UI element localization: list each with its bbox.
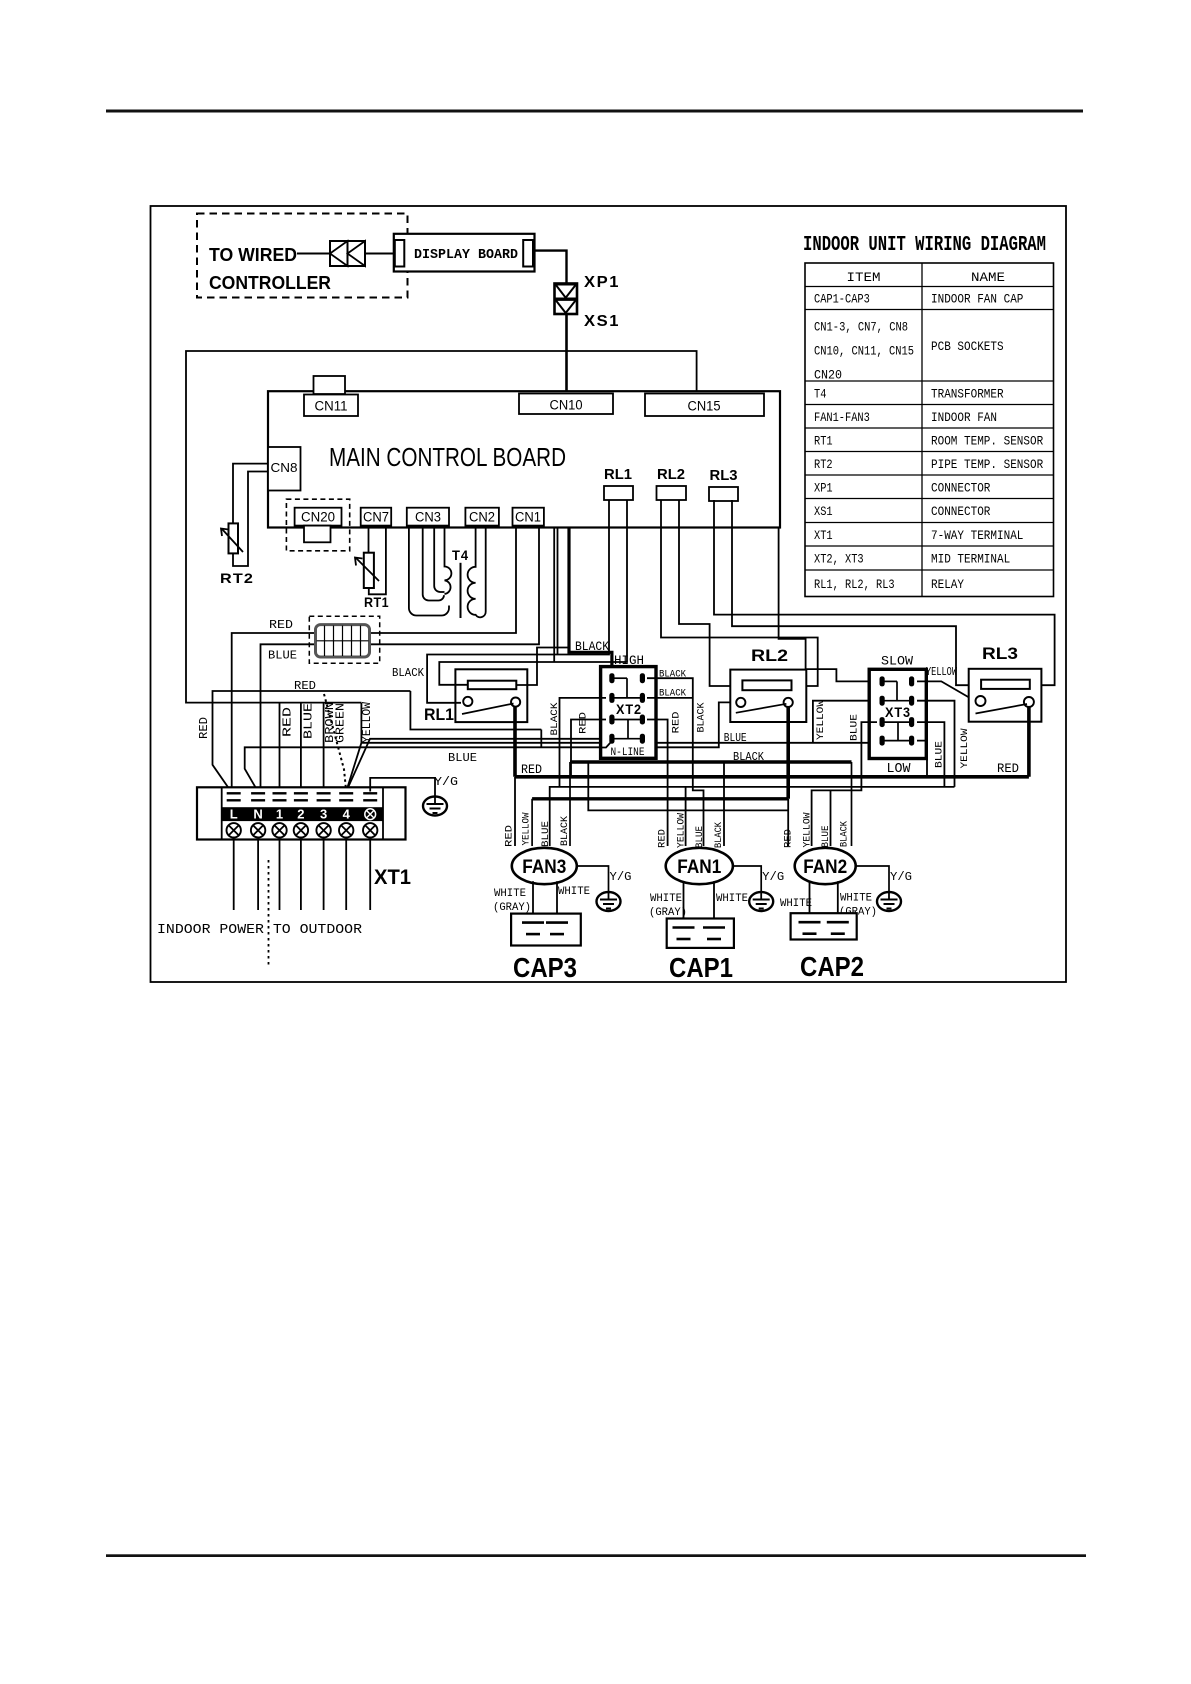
svg-text:YELLOW: YELLOW — [520, 812, 532, 846]
svg-text:N: N — [253, 807, 262, 822]
terminal block XT1 outer box — [197, 787, 406, 839]
svg-text:RED: RED — [997, 762, 1019, 776]
svg-text:BLACK: BLACK — [659, 669, 687, 681]
relay RL1 contacts — [463, 697, 472, 706]
svg-text:CONTROLLER: CONTROLLER — [209, 273, 331, 293]
relay RL1 box — [455, 669, 527, 722]
svg-text:RELAY: RELAY — [931, 578, 964, 592]
svg-text:XS1: XS1 — [814, 505, 833, 519]
dashed box TO WIRED CONTROLLER — [197, 214, 408, 298]
wire XS1 to CN10 — [565, 314, 568, 394]
svg-text:MID TERMINAL: MID TERMINAL — [931, 553, 1010, 567]
socket CN8 — [268, 447, 301, 491]
wire fan2 black drop — [851, 762, 853, 846]
thermistor RT1 wiring from CN7 — [368, 526, 370, 553]
fan FAN2 wires to capacitor — [809, 881, 811, 922]
wires below XT1 to supply — [233, 840, 235, 911]
wire yellow drop from big loop — [360, 703, 362, 743]
XT3 row1 right yellow wire to RL3 — [917, 681, 976, 701]
dashed box around CN20 — [286, 499, 349, 551]
socket CN2 — [465, 508, 499, 526]
svg-text:RL3: RL3 — [982, 644, 1018, 663]
thick bus wire y799 — [532, 797, 788, 800]
XT2 left black wire — [560, 698, 607, 787]
transformer T4 primary coil and CN3 wires — [409, 526, 449, 616]
svg-text:WHITE: WHITE — [780, 898, 812, 910]
svg-text:CN15: CN15 — [688, 399, 721, 414]
fan FAN3 ellipse — [512, 848, 577, 884]
svg-text:CN10: CN10 — [550, 398, 583, 413]
wire display board to XP1 — [533, 251, 567, 284]
svg-text:RED: RED — [577, 712, 589, 734]
relay RL3 coil — [981, 680, 1030, 689]
fan FAN1 wires to capacitor — [683, 881, 685, 927]
capacitor CAP1 box — [667, 919, 734, 948]
capacitor CAP2 box — [791, 913, 857, 939]
svg-text:CN11: CN11 — [315, 399, 348, 414]
svg-text:TRANSFORMER: TRANSFORMER — [931, 387, 1004, 401]
svg-text:CONNECTOR: CONNECTOR — [931, 481, 991, 495]
svg-text:INDOOR UNIT WIRING DIAGRAM: INDOOR UNIT WIRING DIAGRAM — [803, 234, 1046, 257]
wire controller to plug symbol — [297, 253, 331, 255]
relay RL3 wiring from board pins — [714, 500, 1055, 685]
svg-text:BLUE: BLUE — [724, 732, 747, 745]
svg-text:RED: RED — [269, 619, 293, 632]
svg-text:WHITE: WHITE — [494, 888, 526, 900]
svg-text:RED: RED — [521, 763, 542, 777]
display board right connector — [523, 240, 533, 267]
fan FAN3 earth ground — [597, 892, 621, 911]
dashed box around grid connector — [309, 616, 379, 663]
thick red bus wire y777 — [515, 775, 1029, 779]
main control board box — [268, 391, 780, 527]
svg-text:WHITE: WHITE — [840, 893, 872, 905]
svg-text:WHITE: WHITE — [558, 886, 590, 898]
svg-text:BLACK: BLACK — [392, 666, 425, 680]
terminal clamps row — [227, 792, 241, 794]
svg-text:XT1: XT1 — [814, 529, 833, 543]
capacitor CAP3 plates — [522, 921, 544, 924]
svg-text:N-LINE: N-LINE — [611, 747, 645, 759]
socket CN1 — [513, 508, 544, 526]
svg-text:Y/G: Y/G — [890, 870, 912, 884]
svg-text:BLUE: BLUE — [303, 703, 316, 739]
svg-text:4: 4 — [343, 807, 351, 822]
svg-text:CN20: CN20 — [814, 369, 842, 383]
svg-text:BLUE: BLUE — [694, 826, 706, 848]
wire yellow riser to XT3 row2 — [813, 701, 869, 743]
svg-text:CN1-3, CN7, CN8: CN1-3, CN7, CN8 — [814, 321, 908, 335]
svg-text:BLUE: BLUE — [448, 751, 477, 765]
wire plug to display board — [365, 253, 394, 255]
relay RL1 coil right wire black — [516, 648, 569, 686]
svg-text:XT2: XT2 — [616, 702, 642, 717]
svg-text:FAN3: FAN3 — [522, 857, 566, 878]
svg-text:YELLOW: YELLOW — [926, 666, 957, 679]
svg-text:TO WIRED: TO WIRED — [209, 245, 297, 265]
thermistor RT2 wiring from CN8 — [233, 464, 268, 524]
svg-text:RT1: RT1 — [364, 594, 389, 610]
XT2 right red wire to FAN1 — [647, 720, 668, 847]
svg-text:YELLOW: YELLOW — [815, 699, 827, 740]
XT2 pins and links — [612, 677, 627, 679]
relay RL3 output thick wire — [1027, 707, 1031, 777]
svg-text:(GRAY): (GRAY) — [649, 907, 687, 919]
mid terminal XT2 box — [601, 667, 656, 759]
thick bus wire y762 — [570, 760, 852, 763]
svg-text:INDOOR POWER TO OUTDOOR: INDOOR POWER TO OUTDOOR — [157, 922, 363, 938]
svg-text:CN10, CN11, CN15: CN10, CN11, CN15 — [814, 345, 914, 359]
fan FAN2 ellipse — [795, 848, 856, 884]
svg-text:RL2: RL2 — [751, 646, 788, 665]
wire bundle drop brown to terminal 3 — [323, 703, 325, 792]
svg-text:YELLOW: YELLOW — [361, 702, 374, 743]
fan FAN1 earth wire — [733, 866, 761, 892]
socket CN7 — [361, 508, 392, 526]
fan FAN3 wires to capacitor — [532, 881, 534, 922]
svg-text:CN7: CN7 — [363, 510, 389, 525]
relay RL2 contacts — [736, 698, 745, 707]
XT3 row3 left blue wire to FAN2 yellow — [812, 722, 877, 846]
svg-text:BLACK: BLACK — [838, 820, 850, 847]
svg-text:CAP1: CAP1 — [669, 952, 733, 983]
svg-text:XP1: XP1 — [814, 481, 833, 495]
svg-text:T4: T4 — [452, 547, 469, 563]
svg-text:BLACK: BLACK — [659, 688, 687, 700]
display board left connector — [395, 240, 405, 267]
svg-text:L: L — [230, 807, 238, 822]
terminal screws row — [227, 823, 241, 837]
svg-text:RED: RED — [198, 717, 211, 739]
relay RL1 coil — [468, 681, 517, 690]
svg-text:BLACK: BLACK — [559, 815, 571, 846]
svg-text:INDOOR FAN: INDOOR FAN — [931, 411, 997, 425]
svg-text:MAIN CONTROL BOARD: MAIN CONTROL BOARD — [329, 442, 566, 472]
wire CN1 blue down to grid connector — [370, 526, 540, 645]
svg-text:Y/G: Y/G — [434, 775, 458, 789]
svg-text:CN1: CN1 — [515, 510, 541, 525]
wire yellow to XT3 row4 — [346, 743, 882, 792]
svg-text:CN3: CN3 — [415, 510, 441, 525]
svg-text:T4: T4 — [814, 387, 826, 401]
svg-text:CAP1-CAP3: CAP1-CAP3 — [814, 293, 870, 307]
svg-text:XS1: XS1 — [584, 313, 620, 330]
capacitor CAP3 box — [511, 914, 581, 946]
svg-text:FAN1-FAN3: FAN1-FAN3 — [814, 411, 870, 425]
svg-text:BLACK: BLACK — [733, 750, 765, 764]
wire blue-2 to RL2 left contact — [245, 702, 734, 791]
thick HIGH wire from board to XT2 — [569, 528, 612, 674]
wire fan3 red thin below bus — [514, 777, 516, 846]
wire red to terminal L — [213, 691, 411, 792]
socket CN10 — [519, 394, 613, 415]
svg-text:GREEN: GREEN — [335, 703, 348, 743]
relay coil box RL1 on board — [604, 486, 633, 500]
svg-text:ITEM: ITEM — [847, 271, 881, 285]
page bottom rule — [106, 1554, 1086, 1557]
socket CN15 — [645, 394, 764, 417]
wire CN1 red down to grid connector — [370, 526, 517, 633]
socket CN20 — [295, 508, 342, 526]
svg-text:Y/G: Y/G — [610, 870, 632, 884]
svg-text:CAP3: CAP3 — [513, 952, 577, 983]
fan FAN3 earth wire — [577, 866, 609, 892]
svg-text:CN20: CN20 — [301, 510, 335, 525]
svg-text:NAME: NAME — [971, 271, 1005, 285]
fan FAN2 earth ground — [877, 892, 901, 911]
wire fan3 yellow drop — [531, 799, 533, 846]
svg-text:FAN2: FAN2 — [803, 857, 847, 878]
svg-text:PCB SOCKETS: PCB SOCKETS — [931, 340, 1004, 354]
thin bus wire y810 — [588, 762, 788, 810]
dotted divider line — [268, 860, 270, 966]
wire fan2 blue drop — [830, 790, 832, 846]
svg-text:RL1: RL1 — [424, 705, 454, 724]
grid connector block — [316, 625, 370, 657]
transformer T4 core — [460, 563, 462, 618]
svg-text:BLACK: BLACK — [549, 702, 561, 736]
display board box — [394, 234, 535, 272]
svg-text:XT1: XT1 — [374, 866, 411, 889]
table grid — [805, 263, 1054, 597]
socket CN3 — [407, 508, 449, 526]
svg-text:3: 3 — [320, 807, 327, 822]
svg-text:XT3: XT3 — [885, 705, 911, 720]
svg-text:1: 1 — [276, 807, 283, 822]
relay RL2 wiring from board pins — [661, 500, 818, 686]
wire bundle dotted green to ground terminal — [324, 694, 346, 792]
thermistor RT1 — [364, 553, 374, 588]
diagram outer frame — [151, 206, 1067, 982]
svg-text:CN8: CN8 — [271, 461, 298, 475]
wire blue-1 to XT2 N-LINE — [346, 739, 600, 792]
wire stub down from under-RL1 run — [540, 730, 542, 748]
relay RL2 box — [730, 670, 806, 722]
XT3 row2 right yellow wire down — [917, 701, 955, 787]
svg-text:(GRAY): (GRAY) — [493, 902, 531, 914]
terminal label strip L N 1 2 3 4 — [222, 807, 383, 821]
svg-text:RT2: RT2 — [814, 458, 833, 472]
wire fan1 yellow drop — [685, 787, 687, 846]
svg-text:DISPLAY BOARD: DISPLAY BOARD — [414, 247, 518, 263]
svg-text:RL1, RL2, RL3: RL1, RL2, RL3 — [814, 578, 895, 592]
svg-text:INDOOR FAN CAP: INDOOR FAN CAP — [931, 293, 1023, 307]
svg-text:ROOM TEMP. SENSOR: ROOM TEMP. SENSOR — [931, 434, 1044, 448]
mid terminal XT3 box — [869, 669, 926, 758]
wire from board to XT3 SLOW — [779, 528, 870, 682]
capacitor CAP2 plates — [799, 921, 821, 924]
XT2 left red wire — [571, 720, 606, 777]
svg-text:RED: RED — [503, 825, 515, 847]
wire bundle drop blue to terminal 2 — [300, 703, 302, 792]
svg-text:XP1: XP1 — [584, 274, 620, 291]
svg-text:BLUE: BLUE — [848, 714, 860, 741]
wire fan1 black drop — [723, 762, 725, 846]
svg-text:SLOW: SLOW — [881, 654, 913, 669]
capacitor CAP1 plates — [673, 926, 695, 929]
svg-text:YELLOW: YELLOW — [675, 812, 687, 848]
svg-text:RL2: RL2 — [657, 466, 685, 483]
wire terminal ground to Y/G earth — [370, 778, 435, 797]
svg-text:RL3: RL3 — [710, 467, 738, 484]
svg-text:RL1: RL1 — [604, 466, 632, 483]
svg-text:BLUE: BLUE — [933, 741, 945, 768]
svg-text:7-WAY TERMINAL: 7-WAY TERMINAL — [931, 529, 1023, 543]
thin bus wire y787 — [550, 787, 955, 846]
wire fan2 red thin below bus — [787, 799, 789, 846]
svg-text:RT2: RT2 — [220, 570, 254, 586]
svg-text:2: 2 — [297, 807, 304, 822]
svg-text:BLACK: BLACK — [713, 821, 725, 848]
svg-text:YELLOW: YELLOW — [801, 812, 813, 848]
relay RL3 contacts — [976, 696, 986, 706]
relay RL1 output thick red wire — [513, 707, 517, 777]
bump above CN11 — [314, 376, 346, 394]
big loop wire from board area to CN15 and left side — [186, 351, 697, 703]
relay coil box RL2 on board — [657, 486, 687, 500]
svg-text:FAN1: FAN1 — [677, 857, 721, 878]
svg-text:RED: RED — [656, 829, 668, 848]
svg-text:BLUE: BLUE — [820, 826, 832, 848]
relay RL2 output thick wire — [786, 707, 790, 799]
relay RL2 coil — [742, 680, 791, 690]
svg-text:BLACK: BLACK — [575, 640, 609, 654]
relay RL1 wiring loops — [427, 500, 609, 703]
svg-text:RED: RED — [670, 712, 682, 734]
svg-text:Y/G: Y/G — [762, 870, 784, 884]
svg-text:BLUE: BLUE — [540, 821, 552, 847]
relay RL3 lever — [976, 704, 1028, 714]
svg-text:XT2, XT3: XT2, XT3 — [814, 553, 864, 567]
svg-text:RED: RED — [782, 829, 794, 848]
svg-text:WHITE: WHITE — [716, 893, 748, 905]
svg-text:PIPE TEMP. SENSOR: PIPE TEMP. SENSOR — [931, 458, 1044, 472]
svg-text:CN2: CN2 — [469, 510, 495, 525]
fan FAN2 earth wire — [856, 866, 889, 892]
XT2 N-LINE entry diagonal — [601, 741, 612, 748]
XT3 row3 right blue wire down — [917, 722, 944, 787]
relay RL2 lever — [736, 704, 787, 713]
grid connector left blue wire — [261, 644, 316, 791]
bump below CN20 — [304, 526, 331, 543]
fan FAN1 ellipse — [666, 848, 733, 884]
svg-text:WHITE: WHITE — [650, 893, 682, 905]
transformer T4 secondary coil and CN2 wires — [468, 526, 486, 618]
page top rule — [106, 110, 1083, 113]
XT2 right black wires — [647, 678, 704, 846]
thermistor RT2 — [229, 523, 239, 553]
earth ground at XT1 — [423, 797, 447, 816]
connector XP1/XS1 symbol — [555, 284, 578, 315]
fan FAN1 earth ground — [749, 892, 773, 911]
wire fan3 black drop — [569, 762, 571, 846]
svg-text:RED: RED — [282, 707, 295, 737]
grid connector left red wire — [232, 633, 316, 792]
svg-text:CAP2: CAP2 — [800, 951, 864, 982]
connector plug-socket symbol — [330, 241, 365, 266]
svg-text:RT1: RT1 — [814, 434, 833, 448]
svg-text:BLUE: BLUE — [268, 650, 297, 663]
relay coil box RL3 on board — [709, 487, 738, 501]
socket CN11 — [304, 395, 358, 417]
svg-text:RED: RED — [294, 680, 316, 693]
svg-text:YELLOW: YELLOW — [959, 728, 971, 769]
wire bundle drop red to terminal 1 — [279, 703, 281, 792]
svg-text:LOW: LOW — [887, 762, 912, 777]
svg-text:BLACK: BLACK — [695, 702, 707, 733]
terminal block XT1 inner dividers — [221, 787, 223, 839]
relay RL3 box — [969, 669, 1042, 722]
ground screw symbol on strip — [365, 809, 376, 820]
svg-text:CONNECTOR: CONNECTOR — [931, 505, 991, 519]
wire risers from board to RL1 loops — [553, 528, 555, 663]
wire red right segment under RL1 — [410, 691, 541, 730]
XT3 pins and links — [882, 680, 897, 682]
XT3 row4 right wire down to red bus — [917, 741, 927, 777]
relay RL1 lever — [462, 704, 514, 715]
